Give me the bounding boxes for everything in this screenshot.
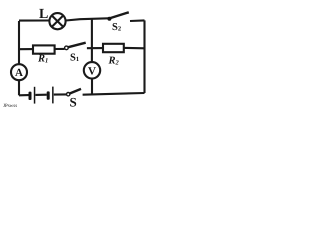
battery cell 1 short plate	[29, 92, 32, 100]
voltmeter V circle	[84, 62, 100, 78]
vertical node wire from top wire to voltmeter	[91, 18, 93, 62]
lamp circle	[49, 13, 65, 29]
right edge wire	[143, 20, 145, 93]
svg-text:S: S	[70, 95, 77, 110]
switch S1 lever	[68, 43, 86, 48]
switch S lever	[70, 89, 81, 94]
switch S1 pivot	[65, 46, 69, 50]
resistor R1 box	[33, 45, 55, 53]
switch S2 contact dot	[107, 17, 111, 21]
wire R1 to switch S1	[55, 48, 65, 50]
battery cell 1 long plate	[34, 87, 36, 104]
middle wire left to R1	[19, 48, 33, 50]
wire lamp to switch S2	[66, 18, 108, 20]
wire between battery cells	[35, 94, 46, 96]
battery cell 2 short plate	[47, 91, 50, 99]
resistor R2 box	[103, 44, 124, 52]
svg-text:L: L	[39, 7, 48, 22]
wire battery to switch S	[54, 93, 67, 95]
svg-text:A: A	[15, 67, 23, 79]
svg-text:JPswss: JPswss	[3, 103, 17, 109]
left edge wire upper (top to ammeter)	[18, 21, 20, 64]
wire S1 to node, through junction to R2	[87, 47, 103, 49]
wire top-left to lamp	[19, 19, 49, 21]
wire S2 to top-right corner	[130, 19, 145, 22]
wire bottom-left corner to battery	[19, 94, 29, 96]
battery cell 2 long plate	[52, 87, 54, 104]
wire R2 to right edge	[124, 47, 145, 49]
svg-text:V: V	[88, 65, 96, 77]
left edge wire lower (ammeter to bottom)	[18, 80, 20, 95]
lamp X2	[52, 16, 63, 27]
lamp X1	[52, 16, 63, 27]
ammeter A circle	[11, 64, 27, 80]
bottom wire right segment	[83, 93, 145, 95]
switch S2 lever	[111, 12, 129, 18]
switch S pivot	[67, 93, 70, 96]
wire voltmeter to bottom wire	[91, 79, 93, 95]
